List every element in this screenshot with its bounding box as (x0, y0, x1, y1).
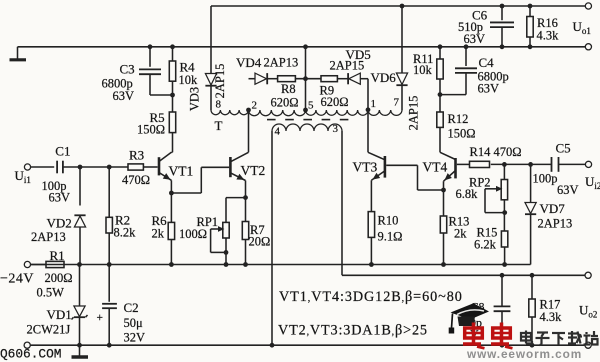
svg-text:VT2: VT2 (241, 163, 266, 178)
svg-text:2AP15: 2AP15 (213, 64, 227, 99)
svg-text:VD4: VD4 (236, 55, 262, 70)
svg-text:VT3: VT3 (353, 160, 378, 175)
svg-text:63V: 63V (464, 32, 486, 46)
svg-text:VT2,VT3:3DA1B,β>25: VT2,VT3:3DA1B,β>25 (278, 323, 428, 339)
svg-text:T: T (215, 118, 223, 133)
svg-text:10k: 10k (179, 73, 199, 87)
svg-text:4.3k: 4.3k (537, 29, 560, 43)
svg-text:470Ω: 470Ω (122, 173, 150, 187)
svg-text:63V: 63V (113, 89, 135, 103)
svg-text:VT1,VT4:3DG12B,β=60~80: VT1,VT4:3DG12B,β=60~80 (279, 289, 463, 305)
svg-text:5: 5 (308, 100, 314, 112)
svg-text:6.8k: 6.8k (456, 187, 479, 201)
svg-text:50μ: 50μ (124, 316, 144, 330)
svg-text:Q606.COM: Q606.COM (0, 347, 61, 362)
svg-text:2CW21J: 2CW21J (27, 323, 71, 337)
svg-text:2k: 2k (454, 227, 467, 241)
svg-text:2AP13: 2AP13 (31, 230, 66, 244)
svg-text:2AP15: 2AP15 (330, 58, 365, 72)
svg-text:8: 8 (216, 99, 222, 111)
svg-text:32V: 32V (124, 331, 146, 345)
svg-text:9.1Ω: 9.1Ω (378, 230, 403, 244)
svg-text:R10: R10 (378, 214, 399, 228)
svg-text:620Ω: 620Ω (271, 96, 299, 110)
svg-text:150Ω: 150Ω (137, 123, 165, 137)
svg-text:R3: R3 (129, 148, 144, 163)
svg-text:+: + (97, 312, 104, 324)
svg-text:VD7: VD7 (540, 201, 566, 216)
svg-text:63V: 63V (49, 191, 71, 205)
svg-text:4: 4 (275, 126, 281, 138)
svg-text:2k: 2k (152, 227, 165, 241)
svg-text:C3: C3 (120, 62, 135, 77)
svg-text:8.2k: 8.2k (114, 226, 137, 240)
svg-text:VT4: VT4 (423, 160, 448, 175)
svg-text:R14 470Ω: R14 470Ω (470, 145, 522, 159)
svg-text:R1: R1 (50, 248, 65, 263)
svg-text:2: 2 (252, 100, 258, 112)
svg-text:www.eeworm.com: www.eeworm.com (466, 347, 582, 361)
svg-text:R12: R12 (448, 112, 469, 126)
svg-text:2AP13: 2AP13 (264, 56, 299, 70)
svg-text:150Ω: 150Ω (448, 127, 476, 141)
svg-text:2AP15: 2AP15 (407, 96, 421, 131)
svg-text:63V: 63V (478, 82, 500, 96)
svg-text:R8: R8 (281, 82, 296, 96)
svg-text:7: 7 (394, 97, 400, 109)
svg-text:1: 1 (371, 98, 377, 110)
svg-text:−24V: −24V (0, 272, 34, 287)
svg-text:6.2k: 6.2k (474, 238, 497, 252)
svg-text:C4: C4 (479, 55, 495, 70)
svg-text:C5: C5 (556, 141, 571, 156)
svg-text:2AP13: 2AP13 (538, 217, 573, 231)
svg-text:VD3: VD3 (188, 87, 202, 111)
svg-text:VD2: VD2 (47, 216, 72, 231)
svg-text:10k: 10k (413, 63, 433, 77)
svg-text:63V: 63V (557, 183, 579, 197)
svg-text:100Ω: 100Ω (179, 227, 207, 241)
svg-text:VD1: VD1 (47, 307, 72, 322)
svg-text:0.5W: 0.5W (37, 286, 65, 300)
svg-text:100p: 100p (533, 172, 558, 186)
svg-text:VT1: VT1 (169, 164, 194, 179)
svg-text:20Ω: 20Ω (249, 235, 271, 249)
svg-text:VD6: VD6 (371, 70, 397, 85)
svg-text:4.3k: 4.3k (540, 310, 563, 324)
svg-text:3: 3 (333, 123, 339, 135)
svg-text:C1: C1 (55, 144, 70, 159)
svg-text:C2: C2 (124, 300, 139, 315)
svg-text:200Ω: 200Ω (45, 271, 73, 285)
svg-text:620Ω: 620Ω (321, 95, 349, 109)
